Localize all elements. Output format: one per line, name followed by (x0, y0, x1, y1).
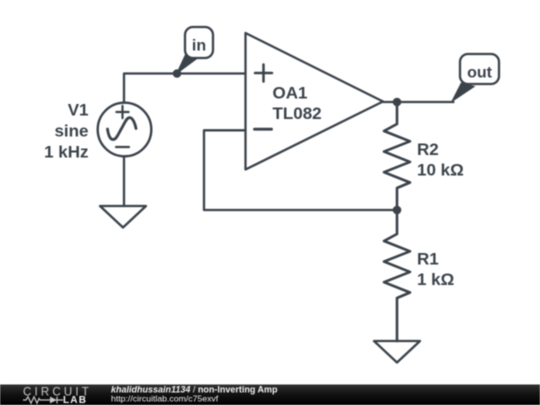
svg-text:R1: R1 (417, 250, 439, 269)
svg-text:LAB: LAB (63, 395, 87, 405)
wire feedback: -in to left and down to R1/R2 node (204, 130, 397, 210)
label R2 10 kOhm (417, 140, 464, 180)
op-amp OA1: minus input symbol (255, 128, 272, 131)
label R1 1 kOhm (417, 250, 454, 290)
op-amp OA1: plus input symbol (255, 65, 272, 82)
footer bar (0, 385, 540, 405)
voltage source V1: minus sign (116, 146, 129, 148)
net flag in: tail (176, 55, 199, 76)
svg-text:1 kHz: 1 kHz (44, 143, 88, 162)
net flag in: box (185, 27, 213, 58)
svg-text:OA1: OA1 (273, 84, 308, 103)
node output junction dot (393, 98, 402, 107)
wire V1 bottom lead (123, 157, 125, 207)
resistor R1 (384, 210, 410, 341)
ground GND2 (374, 341, 420, 363)
op-amp OA1: triangle (246, 33, 384, 170)
voltage source V1: plus sign (116, 106, 128, 118)
svg-text:TL082: TL082 (273, 104, 322, 123)
ground GND1 (100, 206, 146, 228)
net flag out: box (460, 54, 499, 84)
svg-text:1 kΩ: 1 kΩ (417, 270, 454, 289)
svg-text:V1: V1 (68, 101, 89, 120)
svg-text:http://circuitlab.com/c75exvf: http://circuitlab.com/c75exvf (111, 394, 219, 404)
svg-text:R2: R2 (417, 140, 439, 159)
wire top horizontal: V1 to op-amp +in (124, 74, 246, 102)
node in-junction dot (173, 69, 182, 78)
svg-text:out: out (467, 64, 493, 81)
node R2-R1 junction dot (393, 206, 402, 215)
wire output: op-amp apex to out flag (383, 101, 454, 103)
voltage source V1: sine wave (108, 118, 137, 140)
voltage source V1: circle (98, 103, 152, 157)
svg-text:10 kΩ: 10 kΩ (417, 161, 464, 180)
svg-text:sine: sine (54, 122, 88, 141)
CircuitLab logo: resistor-diode squiggle (23, 397, 63, 404)
label OA1 TL082 (273, 84, 322, 124)
net flag out: tail (451, 83, 476, 104)
svg-text:in: in (192, 37, 206, 54)
resistor R2 (384, 102, 410, 210)
label V1 sine 1kHz (44, 101, 88, 162)
